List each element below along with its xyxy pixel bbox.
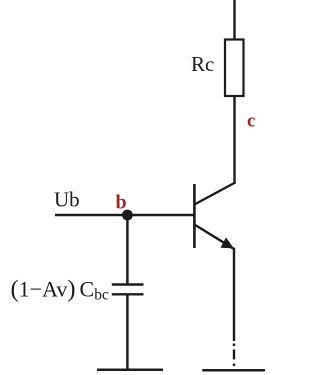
wire xyxy=(126,215,129,285)
transistor Q1 xyxy=(194,183,234,249)
wire xyxy=(233,96,235,184)
svg-text:Rc: Rc xyxy=(191,52,214,76)
wire xyxy=(233,344,235,367)
wire xyxy=(233,0,235,40)
resistor Rc xyxy=(225,40,244,97)
wire xyxy=(233,248,235,341)
wire xyxy=(55,214,194,217)
ground xyxy=(202,369,265,372)
junction xyxy=(122,210,133,221)
capacitor Cbc xyxy=(112,285,144,295)
wire xyxy=(126,294,129,369)
svg-text:Cbc: Cbc xyxy=(80,277,109,304)
svg-text:Ub: Ub xyxy=(54,188,80,212)
svg-text:c: c xyxy=(247,111,255,132)
ground xyxy=(97,369,163,372)
svg-text:(1−Av): (1−Av) xyxy=(11,276,76,303)
